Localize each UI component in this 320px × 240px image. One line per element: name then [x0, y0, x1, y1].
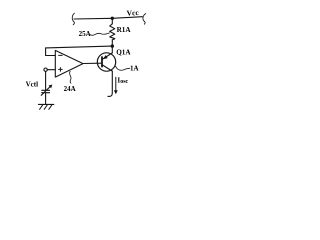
wire Vcc rail right segment [112, 17, 142, 19]
wire Vctl branch down from terminal [45, 71, 47, 90]
transistor Q1A collector diagonal [102, 65, 112, 71]
transistor Q1A emitter diagonal [102, 53, 112, 59]
svg-text:25A: 25A [79, 30, 91, 38]
svg-text:R1A: R1A [117, 26, 132, 34]
current arrow Iosc [115, 77, 117, 91]
wire op-amp output to Q1A base [83, 62, 101, 64]
wire varactor to ground [45, 93, 47, 104]
varactor bottom plate [42, 92, 50, 94]
wire feedback from emitter node to op-amp inverting input [46, 46, 113, 55]
ground bar [38, 103, 53, 105]
leader squiggle for 25A [91, 33, 110, 35]
varactor arrow diagonal [41, 86, 50, 95]
leader squiggle for 1A [116, 66, 130, 70]
wire dot to resistor top [111, 18, 113, 24]
node junction dot emitter/feedback [111, 44, 114, 47]
connector hook right end of Vcc rail [143, 14, 146, 25]
connector hook left end of Vcc rail [72, 13, 74, 25]
wire resistor bottom to emitter node [111, 40, 113, 46]
varactor top plate [42, 89, 50, 91]
svg-text:1A: 1A [130, 64, 139, 72]
op-amp U24A triangle [55, 50, 83, 77]
svg-text:24A: 24A [64, 85, 76, 93]
wire collector down with hook end [108, 71, 112, 96]
wire terminal to plus input [47, 69, 55, 71]
wire Vcc rail left segment [74, 17, 112, 20]
svg-text:Vcc: Vcc [126, 8, 139, 18]
terminal circle Vctl input [44, 68, 47, 71]
plus sign non-inverting input [59, 68, 63, 72]
node junction dot at Vcc rail / R1A top [111, 17, 114, 20]
resistor R1A zigzag [110, 24, 115, 40]
svg-text:Vctl: Vctl [26, 81, 38, 89]
ground hatch ticks [40, 105, 52, 109]
leader squiggle for 24A [70, 71, 72, 83]
transistor Q1A circle [97, 53, 115, 71]
svg-text:Q1A: Q1A [116, 49, 131, 57]
wire emitter to node [111, 46, 113, 53]
transistor Q1A base bar [101, 57, 103, 67]
minus sign inverting input [59, 54, 63, 56]
emitter arrow (PNP, pointing into base) [103, 55, 108, 59]
